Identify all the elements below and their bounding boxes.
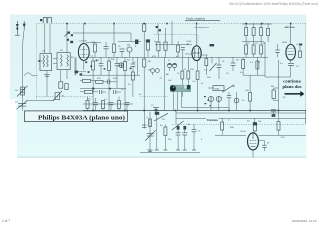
capacitor C7 horizontal	[108, 80, 118, 85]
resistor R24 right	[299, 44, 303, 58]
trimmer cap CT3	[145, 130, 156, 140]
oscillator padder cluster	[59, 82, 68, 90]
wire hump to switch box	[32, 75, 37, 77]
svg-text:1 of 7: 1 of 7	[2, 219, 10, 223]
wire x164.5 long vertical	[164, 57, 166, 110]
tuning coil L1 with adjust arrow	[15, 86, 27, 97]
resistor R2	[92, 42, 97, 58]
resistor R6	[124, 57, 127, 110]
svg-text:AM-FM 4x: AM-FM 4x	[285, 26, 296, 29]
capacitor C13	[231, 57, 236, 71]
wire y75.2 right segment	[243, 74, 265, 76]
wire T1 primary lead	[49, 23, 51, 53]
resistor R29	[221, 118, 224, 135]
resistor R25	[272, 88, 278, 101]
junction dots on top bus	[66, 23, 291, 25]
internal bus wire y57.3	[80, 56, 268, 58]
resistor R15	[157, 35, 160, 58]
label B1	[210, 44, 215, 46]
bottom row resistor R12	[118, 97, 121, 111]
capacitor C4	[120, 49, 125, 57]
svg-text:1M: 1M	[148, 61, 151, 63]
diode valve D3	[208, 96, 213, 110]
oscillator cap bank column D	[267, 23, 270, 42]
wire V4 plate stub	[259, 140, 265, 142]
text continua plano dos	[283, 79, 302, 89]
band switch block S1b	[53, 53, 70, 70]
wire V2 top lead	[196, 23, 198, 46]
svg-text:plano dos: plano dos	[283, 84, 302, 89]
oscillator coil with arrow	[53, 91, 65, 101]
internal bus wire y88.5	[80, 88, 126, 90]
resistor R13 top at x144	[143, 23, 146, 59]
wire V1 cathode lead	[83, 60, 85, 70]
ground mark below box1	[44, 75, 50, 77]
wire bank top bus	[242, 23, 272, 25]
grid leak cluster under V1	[75, 71, 86, 76]
wire V3 top lead	[290, 23, 292, 44]
wire y77 link	[265, 76, 291, 78]
terminal cluster top-left of V1	[65, 32, 74, 44]
dashed stub at tube	[197, 35, 199, 45]
wire y107.3 branch	[182, 92, 230, 108]
speckle labels near detector	[204, 96, 211, 106]
bottom row capacitor C9	[93, 98, 98, 111]
wire T1 secondary leads	[44, 23, 46, 53]
capacitor C23 right of V4	[262, 141, 270, 151]
junction blobs central cluster	[85, 60, 131, 90]
capacitor C6	[115, 57, 120, 88]
resistor R21	[202, 58, 204, 60]
diode pair D1 D2	[151, 69, 160, 76]
resistor R16	[164, 28, 167, 57]
bus wire y104	[83, 103, 133, 105]
wire box2 top lead	[66, 23, 68, 52]
svg-text:Termico: Termico	[207, 118, 218, 122]
capacitor C14	[227, 92, 231, 111]
wire S1b stub down	[60, 70, 62, 82]
wire strip left end	[175, 111, 177, 125]
resistor R3	[113, 23, 116, 57]
wire y41.5	[118, 41, 136, 43]
bottom row capacitor C11	[125, 103, 130, 111]
wire bus stub to x150	[143, 111, 145, 129]
ground stubs output cluster	[140, 150, 200, 152]
capacitor C20	[176, 124, 181, 150]
wire x278 long vertical	[277, 60, 279, 118]
switch lever S4	[172, 121, 184, 130]
tube V2 UCH42 mixer	[187, 41, 202, 60]
capacitor C5	[99, 57, 104, 75]
svg-text:04/05/2010, 11:19: 04/05/2010, 11:19	[292, 219, 317, 223]
volume pot R23	[208, 85, 234, 92]
wire y33	[73, 33, 131, 42]
AF takeoff cluster	[151, 105, 159, 113]
wire S1 stubs down	[46, 71, 48, 97]
thermal strip box line 1	[176, 112, 306, 114]
svg-text:Vol: Vol	[232, 86, 236, 88]
trimmer circle CT4	[119, 63, 124, 68]
wire y135.3 left of tube	[215, 134, 246, 136]
antenna terminal with earth bar	[15, 21, 20, 35]
resistor R36	[177, 41, 180, 57]
capacitor C31	[181, 48, 185, 58]
wire V2 left lead	[185, 53, 192, 55]
resistor R27	[149, 119, 152, 127]
switch lever S3	[154, 113, 168, 121]
electrolytic C19	[155, 112, 159, 150]
svg-text:Philips B4X03A (plano uno): Philips B4X03A (plano uno)	[38, 114, 125, 121]
crossover hump wire	[24, 73, 32, 76]
capacitor C3	[104, 42, 109, 57]
resistor R34	[146, 39, 150, 57]
capacitor C18 lower right	[271, 110, 276, 117]
wire y135.3 right of tube	[259, 134, 306, 136]
switch lever S2	[210, 57, 217, 71]
output stage: wire x150 down	[149, 112, 151, 153]
wire x173.6 down from highlight	[173, 92, 175, 111]
svg-text:file:///C|/Oudelektuiken 1/6/9: file:///C|/Oudelektuiken 1/6/9-amePhilip…	[229, 2, 318, 6]
resistor R5	[108, 57, 111, 110]
wire x265	[264, 42, 266, 77]
svg-text:1M: 1M	[148, 70, 151, 72]
capacitor C27 at x133	[131, 57, 136, 72]
label onda completa	[185, 16, 220, 20]
arrow to plano dos	[285, 91, 305, 97]
resistor R17	[181, 57, 184, 97]
resistor R28	[164, 124, 167, 150]
wire V4 cathode down	[252, 150, 254, 158]
svg-text:continua: continua	[283, 79, 301, 84]
dashed chassis enclosure top edge	[52, 22, 306, 24]
svg-text:UF41: UF41	[282, 42, 288, 44]
IF diode cans	[168, 63, 177, 71]
wire aerial vertical lower	[22, 72, 24, 111]
dashed chassis enclosure right side	[305, 23, 307, 113]
wire x257	[257, 57, 259, 75]
scan shadow along bottom edge of sheet	[17, 156, 306, 158]
bottom row resistor R10	[86, 97, 89, 111]
trimmer circle CT2	[127, 45, 133, 58]
tube V3 UF41	[282, 42, 300, 60]
bottom row capacitor C10	[109, 103, 114, 111]
wire V2 right lead	[201, 54, 207, 56]
ground left output	[147, 150, 152, 152]
capacitor C12	[217, 57, 222, 79]
svg-text:Onda completa: Onda completa	[186, 16, 205, 20]
oscillator cap bank column B	[252, 23, 255, 57]
dashed internal line y96.8 center	[140, 96, 168, 98]
dashed chassis enclosure left side	[36, 23, 43, 99]
band switch block S1a	[38, 54, 52, 71]
capacitor C8 horizontal	[100, 90, 107, 94]
resistor R33 at x132	[131, 72, 134, 97]
wire x137	[137, 57, 139, 75]
resistor R22	[242, 57, 245, 75]
aerial input terminal arrow	[23, 21, 26, 29]
dashed internal line y97	[36, 96, 93, 98]
wire x76 vertical	[75, 57, 77, 75]
capacitor C21	[182, 126, 187, 150]
resistor R26 at x250	[245, 75, 252, 111]
capacitor C17	[275, 44, 279, 57]
horizontal resistor R7	[80, 79, 95, 82]
title box	[25, 111, 128, 122]
trimmer capacitor CT1	[15, 101, 27, 110]
svg-text:TC: TC	[151, 105, 154, 107]
resistor R19	[196, 61, 199, 111]
horizontal resistor R9	[80, 90, 98, 93]
teal selection highlight	[170, 85, 191, 92]
wire switch feeders	[156, 21, 172, 45]
wire y44.8	[155, 44, 192, 46]
dotted line under strip	[172, 123, 306, 125]
svg-text:UCH42: UCH42	[80, 41, 88, 43]
wire branch at y100	[26, 100, 54, 102]
thermal strip box line 2	[176, 117, 306, 119]
capacitor C16 under V3	[288, 60, 294, 77]
wire x177.6 down from highlight	[177, 92, 179, 111]
resistor R31 far right	[277, 118, 280, 135]
wire x67 below box2	[66, 70, 68, 79]
svg-text:UL41: UL41	[241, 131, 247, 133]
main HT bus wire y110.5	[83, 110, 306, 112]
wire bank crossbar	[242, 41, 264, 43]
resistor R20	[205, 55, 208, 75]
wire strip right end	[305, 111, 307, 125]
resistor R18	[187, 57, 190, 85]
wire V1 top lead	[83, 23, 85, 43]
capacitor C22	[192, 124, 201, 150]
diode valve D4	[216, 96, 221, 110]
wire aerial lead down	[23, 29, 25, 72]
antenna transformer T1	[40, 17, 51, 23]
capacitor C30	[142, 125, 147, 127]
oscillator cap bank column A	[245, 23, 248, 57]
tube V1 UCH42 (RF)	[78, 41, 89, 61]
tube V4 UL41 output	[241, 131, 259, 150]
horizontal resistor R8	[96, 80, 109, 83]
tiny value labels sprinkled	[42, 41, 300, 141]
grid of IF components: resistor R4	[92, 57, 95, 110]
capacitor C28 horizontal row3	[114, 90, 122, 94]
wire y42.5	[86, 42, 101, 44]
internal bus wire y75.2	[80, 74, 140, 76]
resistor R14 mid at x144	[143, 59, 146, 111]
svg-text:2M: 2M	[92, 42, 95, 44]
dotted AM line	[154, 34, 198, 36]
svg-text:TC: TC	[198, 131, 201, 133]
coupling cap C29	[135, 40, 141, 45]
junction dots on HT bus	[92, 110, 279, 112]
bottom row resistor R11	[102, 101, 105, 111]
oscillator cap bank column C	[260, 23, 263, 57]
resistor R30 above output tube	[253, 118, 257, 133]
electrolytic C15	[234, 92, 239, 111]
wire x75	[74, 57, 76, 75]
resistor R35	[256, 61, 259, 69]
